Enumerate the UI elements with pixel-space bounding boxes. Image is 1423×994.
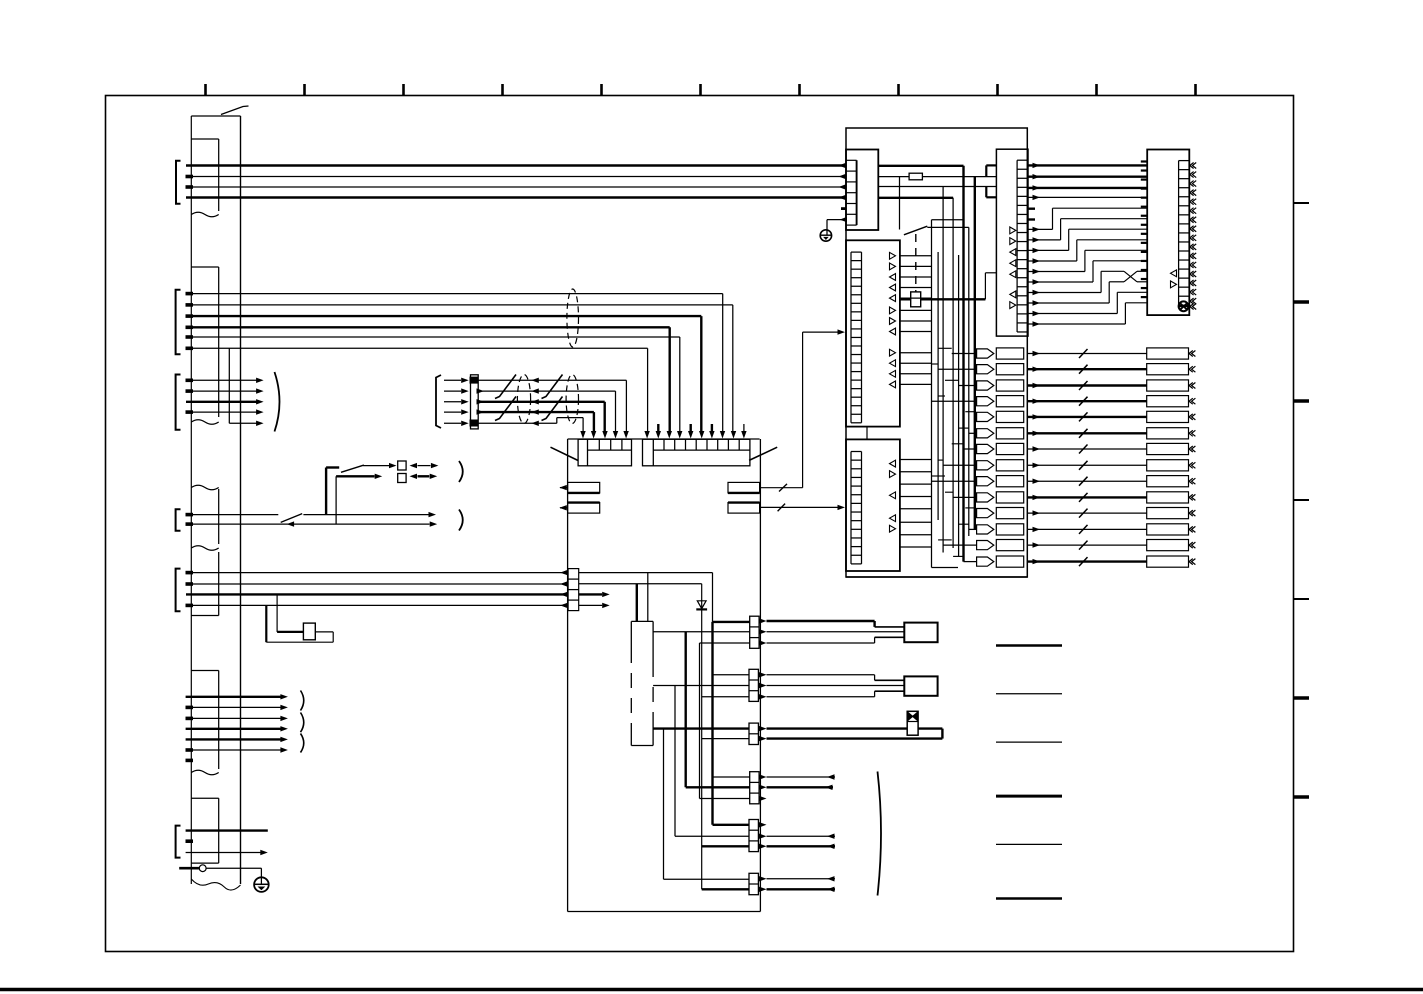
wire to CN-D1 pin1 [713,621,750,623]
bus to CN-F [1028,164,1147,166]
cable connector header [471,375,479,429]
direction mark U3 [1010,227,1016,234]
wire W6-1 [186,696,281,698]
inline connector J4b [398,474,406,483]
connector entry arrows CN-A [580,431,585,439]
wire W3-3 [186,401,257,403]
connector CN-D3 [749,723,758,744]
CN-F left pin stub [1141,287,1147,289]
wire B to logic block [760,506,837,508]
wire to CN-D4 pin1 [713,776,750,778]
wire W2-3 [186,315,701,317]
solenoid SL1 bowtie [908,712,913,721]
wire V-i [699,643,701,799]
CN-F right pin [1190,289,1196,295]
wire V-g [674,686,676,837]
bus to CN-F [1028,175,1147,177]
strip bottom break [191,879,240,890]
legend rule line [996,843,1062,845]
CN-F left pin stub [1141,224,1147,226]
direction mark U3 [1010,291,1016,298]
CN-F left pin stub [1141,269,1147,271]
buffer direction mark [890,318,896,325]
buffer direction mark [890,360,896,367]
legend rule line [996,897,1062,900]
top border tick 4 [501,84,504,96]
CN-F right pin [1190,235,1196,241]
ground wire and symbol [827,219,846,221]
wire W6-6 [186,749,281,751]
driver row 14 [977,557,994,566]
wire to CN-D6 pin1 [664,878,750,880]
connector CN-D2 [749,669,758,701]
U2 stub [900,471,932,473]
top connector header CN-A [578,439,631,466]
wire W5-2 [186,583,568,585]
frame ground symbol in CN-F [1179,301,1189,311]
wire W6-5 [186,738,281,740]
U2 stub [900,534,932,536]
CN-F left pin stub [1141,251,1147,253]
wire row G4-2 [186,523,430,525]
sensor feedback wires [767,776,836,778]
CN-F left pin stub [1141,188,1147,190]
bus vertical 5 [931,220,933,568]
direction mark U3 [1010,302,1016,309]
inter-block link [866,427,868,440]
top border tick 10 [1095,84,1098,96]
buffer direction mark [890,328,896,335]
bus vertical 4 [952,198,954,548]
driver row 10 [977,493,994,502]
bus to CN-F [1028,196,1147,198]
buffer direction mark [890,492,896,499]
buffer direction mark [890,525,896,532]
buffer direction mark [890,349,896,356]
connector CN-D4 [750,772,759,804]
direction mark U3 [1010,238,1016,245]
CN-F right pin [1190,244,1196,250]
protective earth symbol [254,877,269,892]
U2 stub [900,546,932,548]
bottom sheet separator line [0,988,1423,992]
buffer direction mark [890,471,896,478]
cable marker ellipse on group 2 [567,289,579,347]
closing paren G4 lower [459,510,463,531]
wire to CN-D3 pin2 [702,738,749,740]
CN-F left pin stub [1141,242,1147,244]
logic block bottom edge [846,576,1027,578]
cable wire C-5 run [478,422,557,424]
stub pin [1028,218,1035,220]
buffer direction mark [890,307,896,314]
CN-F left pin stub [1141,233,1147,235]
thermistor loop component TH1 [265,605,267,642]
wire W7-1 [186,829,268,831]
connector segment P2 [191,266,218,268]
wire W3-5 [229,422,256,424]
wire W6-4 [186,728,281,730]
connector CN-D5 [749,820,758,852]
connector segment P3 [191,485,218,490]
connector segment P4 [218,552,220,616]
top border tick 6 [699,84,702,96]
motor M2 cable [767,674,875,676]
wire W6-3 [186,717,281,719]
bridge step A [985,165,987,176]
output arrow CN-C row4 [579,604,603,606]
CN-F right pin [1190,217,1196,223]
wire to CN-D5 pin3 [702,845,749,847]
CN-F left pin stub [1141,260,1147,262]
driver row 13 [977,541,994,550]
wire W2-4 [186,326,670,328]
wire to CN-D4 pin2 [686,786,750,788]
connector entry arrows CN-B [644,431,649,439]
stub pin [1028,207,1035,209]
wire V-b [647,573,649,622]
corner slant mark right [749,447,777,460]
side port boxes right [728,482,760,493]
wire W1-2 to IC block [186,176,846,178]
buffer direction mark [890,460,896,467]
CN-F right pin [1190,280,1196,286]
CN-F left pin stub [1141,206,1147,208]
U2 stub [900,521,932,523]
bridge step B [985,187,987,198]
driver row 11 [977,509,994,518]
top border tick 7 [798,84,801,96]
resistor R1 [909,173,922,180]
cable wire C-3 run [478,401,605,403]
driver row 12 [977,525,994,534]
wire W1-4 to IC block [186,196,846,199]
wire to CN-D3 pin1 [653,727,749,729]
bus vertical 7 [937,252,939,520]
connector CN-D1 [750,616,759,648]
buffer direction mark [890,515,896,522]
relay switch K1 [904,226,927,235]
wire A to logic block [760,487,802,489]
bus vertical 6 [968,227,970,536]
relay coil K1 [911,292,921,307]
closing paren after G3 arrows [275,372,280,432]
bus vertical 8 [958,255,960,556]
group bracket G5 [176,569,181,612]
right border tick 1 [1294,202,1310,204]
switch SW1 row [186,514,278,516]
bus elbow bottom [932,567,959,569]
wire W5-1 [186,572,568,574]
right border tick 7 [1294,795,1310,799]
interlock switch SW2 upper rows [325,468,327,515]
buffer direction mark [890,274,896,281]
wire W2-2 [186,304,733,306]
buffer direction mark [890,263,896,270]
crossover X [1124,271,1137,282]
CN-F right pin [1190,163,1196,169]
CN-F right pin [1190,208,1196,214]
brace G6 pair1 [301,691,304,711]
connector segment P5 [191,670,218,672]
wire to CN-D4 pin3 [700,798,750,800]
wire W3-2 [186,390,257,392]
motor M1 [904,623,937,643]
driver row 6 [977,429,994,438]
wire H row2 [579,583,702,585]
driver row 9 [977,477,994,486]
corner slant mark left [551,447,578,460]
staircase harness to CN-F [1033,227,1041,232]
direction mark U3 [1010,271,1016,278]
U2 stub [900,496,932,498]
CN-F right pin [1190,253,1196,259]
wire to CN-D1 pin3 [700,642,750,644]
wire W2-5 [186,336,680,338]
left edge connector CN-C [568,569,579,611]
cable wire C-1 lead-in [444,379,461,381]
relay input drop [899,177,901,230]
wire W7-2 [186,852,262,854]
direction mark U3 [1010,260,1016,267]
wire W5-4 [186,604,568,606]
top border tick 8 [897,84,900,96]
top connector header CN-B [643,439,750,466]
driver row 3 [977,381,994,390]
CN-F left pin stub [1141,215,1147,217]
cable wire C-4 lead-in [444,411,461,413]
bus vertical 1 [962,166,964,562]
U2 stub [900,508,932,510]
top border tick 11 [1194,84,1197,96]
bus to CN-F [1028,187,1147,189]
wire V-f [685,632,687,788]
brace G6 pair2 [301,713,304,733]
wire G4 upper row2 [336,475,374,477]
brace G6 pair3 [301,734,304,753]
CN-F left pin stub [1141,169,1147,171]
driver row 5 [977,412,994,421]
solenoid SL1 loop [767,727,943,729]
solenoid SL1 body [907,711,918,735]
bus vertical 2 [974,177,976,530]
wire V-a [636,584,638,622]
group bracket G3 [176,375,181,430]
group bracket G4 [176,509,181,531]
bus wire 3 [878,186,996,188]
cable wire C-3 lead-in [444,401,461,403]
input connector CN-E [846,150,878,231]
wire W1-3 to IC block [186,186,846,188]
buffer direction mark [890,252,896,259]
CN-F right pin [1190,226,1196,232]
cable wire C-2 lead-in [444,390,461,392]
top border tick 1 [204,84,207,96]
RX gate array U1 [846,240,900,426]
wire to CN-D6 pin2 [702,888,749,890]
CN-F right pin [1190,199,1196,205]
CN-F right pin [1190,172,1196,178]
wire H row1 [579,572,713,574]
gate array output stubs [900,255,932,257]
driver row 2 [977,365,994,374]
buffer direction mark [890,381,896,388]
top border tick 3 [402,84,405,96]
right border tick 5 [1294,598,1310,600]
legend rule line [996,644,1062,647]
motor M2 [904,676,937,695]
wire W1-1 to IC block [186,164,846,167]
bus wire 1 [878,165,963,167]
legend rule line [996,693,1062,695]
motor M1 cable [767,620,875,622]
closing paren G4 upper [459,461,463,482]
cable shield ellipse 2 [566,375,578,424]
CN-F right pin [1190,190,1196,196]
wire to CN-D5 pin1 [713,824,750,826]
wire W2-1 [186,293,723,295]
CN-F right pin [1190,181,1196,187]
TX gate array U2 [846,439,900,571]
connector CN-F body [1147,150,1189,316]
cable wire C-2 run [478,390,615,392]
wire W2-6 [186,347,648,349]
wire V-e lower [711,622,713,825]
wire to CN-D2 pin1 [713,674,750,676]
wire V-d upper [712,573,714,622]
wire to CN-D5 pin2 [675,835,749,837]
direction mark CN-F [1171,270,1177,277]
closing paren sensor group [878,772,882,896]
side port boxes left [568,482,600,493]
CN-F right pin [1190,262,1196,268]
wire W5-3 [186,593,568,595]
driver row 4 [977,397,994,406]
wire to CN-D2 pin2 [653,685,749,687]
right border tick 3 [1294,399,1310,403]
U2 stub [900,483,932,485]
connector CN-D6 [749,873,758,894]
buffer direction mark [890,370,896,377]
wire W2-6 drop to W3-5 [228,348,230,423]
bus vertical 3 [942,187,944,553]
driver sub-board (dashed) [631,620,653,622]
CN-F left pin stub [1141,178,1147,180]
direction mark U3 [1010,249,1016,256]
inline connector J4a [398,461,406,470]
connector segment P1 [191,138,218,140]
diode D1 [697,601,706,609]
bus wire 2 [878,176,909,178]
twisted pair marks [495,375,516,399]
right border tick 4 [1294,499,1310,501]
CN-E pin stub [841,207,846,210]
buffer direction mark [890,295,896,302]
cable wire C-1 run [478,379,626,381]
driver row 8 [977,461,994,470]
wire V-h [663,729,665,880]
group bracket G2 [176,290,181,355]
CN-F right pin [1190,298,1196,304]
bus wire 4 [878,197,953,199]
output arrow CN-C row3 [579,593,603,595]
right border tick 6 [1294,696,1310,700]
wire W3-1 [186,379,257,381]
group bracket G7 [176,826,181,858]
driver row 1 [977,349,994,358]
group bracket G1 [176,161,181,204]
top border tick 2 [303,84,306,96]
cable group bracket [436,375,441,428]
wire to CN-D2 pin3 [702,696,749,698]
CN-F left pin stub [1141,296,1147,298]
connector segment P6 [191,797,218,799]
wire W6-2 [186,706,281,708]
right border tick 2 [1294,300,1310,304]
output register block U3 [996,149,1028,336]
CN-F right pin [1190,271,1196,277]
wire W3-4 [186,411,257,413]
CN-F left pin stub [1141,160,1147,162]
wire to CN-D1 pin2 [653,631,750,633]
top border tick 5 [600,84,603,96]
legend rule line [996,741,1062,743]
CN-F left pin stub [1141,197,1147,199]
AC line with terminal [179,867,199,870]
connector strip CN1 outer body [190,116,192,884]
logic block outline [846,128,1027,577]
top border tick 9 [996,84,999,96]
CN-F left pin stub [1141,278,1147,280]
driver row 7 [977,444,994,453]
legend rule line [996,795,1062,798]
drawing border frame [106,96,1294,952]
U2 stub [900,459,932,461]
cable shield ellipse 1 [517,375,530,424]
cable wire C-5 lead-in [444,422,461,424]
buffer direction mark [890,284,896,291]
wire V-c with diode [701,584,703,890]
cable wire C-4 run [478,411,594,413]
main PCB block outline [567,439,569,912]
strip reference flag line [221,106,249,115]
